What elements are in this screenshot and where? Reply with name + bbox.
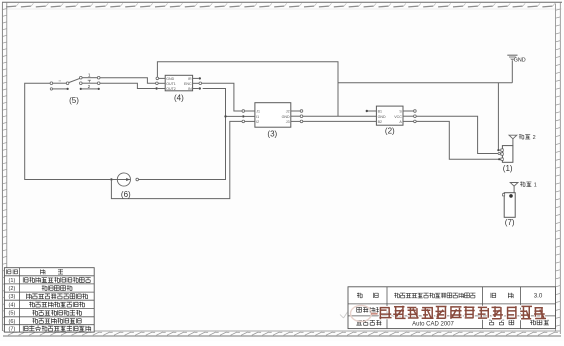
svg-text:1: 1	[88, 73, 91, 78]
svg-text:OUT1: OUT1	[166, 82, 176, 86]
svg-text:I1: I1	[256, 115, 259, 119]
svg-text:(1): (1)	[503, 164, 513, 173]
wire	[303, 115, 377, 117]
svg-text:(5): (5)	[69, 96, 79, 105]
svg-text:1: 1	[534, 182, 537, 188]
svg-text:GND: GND	[514, 57, 526, 63]
svg-text:GND: GND	[282, 115, 290, 119]
svg-text:(5): (5)	[8, 311, 15, 317]
svg-text:(4): (4)	[174, 93, 184, 102]
svg-text:B2: B2	[378, 120, 382, 124]
svg-text:(1): (1)	[8, 278, 15, 284]
wire	[415, 121, 501, 159]
svg-text:(3): (3)	[267, 130, 277, 139]
handheld terminal U7	[503, 193, 516, 228]
watermark text	[379, 306, 546, 320]
title block	[348, 287, 556, 329]
svg-text:GND: GND	[378, 115, 386, 119]
wire	[338, 82, 512, 84]
junction node	[224, 115, 226, 117]
svg-text:J1: J1	[256, 110, 260, 114]
svg-text:OUT2: OUT2	[166, 87, 176, 91]
antenna 天线1	[510, 181, 537, 192]
wire	[226, 115, 243, 117]
wire	[415, 116, 501, 153]
svg-text:GND: GND	[166, 77, 174, 81]
legend table	[4, 268, 94, 333]
svg-text:(3): (3)	[8, 294, 15, 300]
svg-text:(6): (6)	[121, 190, 131, 199]
ground GND	[507, 55, 525, 83]
svg-text:(7): (7)	[8, 326, 15, 332]
svg-text:(4): (4)	[8, 302, 15, 308]
svg-text:B1: B1	[378, 110, 382, 114]
watermark logo	[340, 306, 378, 322]
switch S5	[50, 73, 100, 105]
decoder U2	[366, 106, 417, 136]
svg-text:2: 2	[88, 84, 91, 89]
svg-text:(6): (6)	[8, 319, 15, 325]
svg-text:I2: I2	[256, 120, 259, 124]
svg-text:(7): (7)	[505, 218, 515, 227]
wire	[113, 179, 118, 181]
ground rail wire	[157, 62, 338, 116]
wire	[202, 83, 242, 111]
wire	[367, 110, 377, 112]
antenna 天线2	[509, 134, 536, 146]
svg-text:3.0: 3.0	[534, 293, 543, 300]
svg-text:J3: J3	[286, 120, 290, 124]
svg-text:VCC: VCC	[394, 115, 402, 119]
power source (6)	[110, 173, 138, 199]
wire	[498, 83, 501, 150]
wire	[303, 120, 377, 122]
controller U4	[155, 75, 201, 102]
svg-text:2: 2	[533, 135, 536, 141]
svg-text:IR: IR	[188, 77, 192, 81]
base station U3	[242, 103, 303, 139]
wire	[25, 83, 111, 179]
svg-text:ENC: ENC	[184, 82, 192, 86]
svg-text:J2: J2	[286, 110, 290, 114]
receiver U1	[497, 146, 513, 173]
wire	[111, 121, 242, 198]
svg-text:IN: IN	[188, 87, 192, 91]
wire	[100, 78, 156, 84]
svg-text:(2): (2)	[385, 127, 395, 136]
wire	[139, 89, 226, 180]
svg-text:Auto CAD 2007: Auto CAD 2007	[412, 322, 454, 328]
svg-text:(2): (2)	[8, 286, 15, 292]
wire	[100, 83, 155, 88]
